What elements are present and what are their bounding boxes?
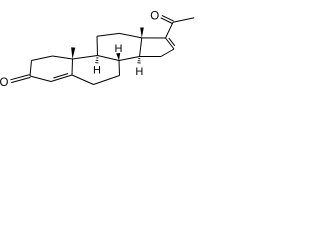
wire bond C13-C14 — [140, 38, 142, 57]
double bond C20=O — [161, 18, 173, 24]
wire bond C9-C10 — [73, 56, 98, 60]
wire bond C5-C6 — [72, 75, 94, 85]
wire bond C2-C3 — [30, 61, 32, 77]
svg-text:O: O — [150, 10, 159, 22]
wire bond C5-C10 — [71, 59, 74, 75]
wire bond C12-C13 — [120, 33, 142, 38]
wire bond C7-C8 — [118, 61, 121, 76]
bold wedge methyl C18 at C13 — [140, 28, 144, 38]
wire bond C1-C10 — [53, 56, 73, 59]
bold wedge methyl C19 at C10 — [71, 47, 75, 59]
hashed wedge H at C9 — [96, 57, 98, 59]
svg-text:H: H — [93, 64, 101, 76]
wire bond C20-C21 (methyl C21) — [173, 18, 194, 23]
wire bond C1-C2 — [32, 56, 53, 61]
double bond C3=O — [11, 77, 30, 82]
wire bond C11-C12 — [97, 33, 120, 36]
svg-text:H: H — [115, 43, 123, 55]
wire bond C9-C11 — [96, 36, 99, 55]
wire bond C15-C16 — [161, 49, 174, 57]
wire bond C8-C9 — [98, 56, 120, 61]
wire bond C13-C17 — [142, 37, 166, 39]
hashed wedge H at C14 — [138, 58, 140, 60]
svg-text:H: H — [135, 66, 143, 78]
wire bond C17-C20 — [166, 22, 174, 38]
double bond C4=C5 — [51, 75, 72, 82]
bold wedge H at C8 — [116, 53, 120, 61]
wire bond C3-C4 — [30, 76, 51, 82]
svg-text:O: O — [0, 77, 9, 89]
wire bond C6-C7 — [94, 76, 120, 85]
double bond C16=C17 — [166, 38, 175, 49]
wire bond C14-C15 — [140, 56, 162, 58]
chemical structure: pregna-4,16-diene-3,20-dione (16-dehydroprogesterone) — [0, 0, 200, 100]
wire bond C8-C14 — [119, 57, 140, 61]
